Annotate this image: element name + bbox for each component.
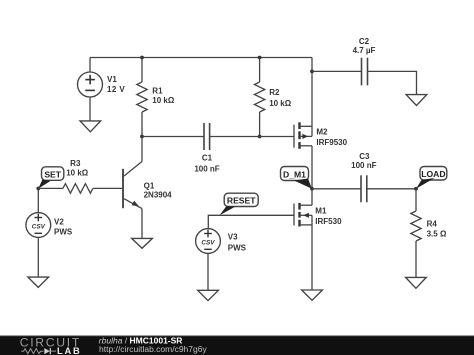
svg-text:C3: C3 xyxy=(359,152,370,161)
svg-text:10 kΩ: 10 kΩ xyxy=(269,99,292,108)
wire V1 bottom lead xyxy=(89,97,91,121)
wire C2 tap to C2 left xyxy=(312,70,362,72)
ground under V3 xyxy=(198,290,219,300)
resistor R2 xyxy=(254,58,264,137)
svg-text:R3: R3 xyxy=(70,159,81,168)
ground under R4 xyxy=(406,277,427,288)
node junction R1 top xyxy=(140,56,144,60)
resistor R3 xyxy=(63,184,122,194)
wire M2 drain to node D_M1 xyxy=(311,146,313,189)
label R1 10 kOhm xyxy=(152,87,175,106)
flag LOAD xyxy=(416,167,447,189)
ground under V1 xyxy=(80,121,101,132)
wire node A to C1 left xyxy=(142,136,204,138)
svg-text:C1: C1 xyxy=(202,153,213,162)
svg-text:R2: R2 xyxy=(269,88,280,97)
ground under V2 xyxy=(28,277,49,287)
node junction LOAD xyxy=(414,187,418,191)
label M2 IRF9530 xyxy=(316,128,347,147)
wire C2 right to ground drop xyxy=(368,71,417,94)
label C1 100 nF xyxy=(194,153,219,173)
label C3 100 nF xyxy=(351,152,376,170)
flag SET xyxy=(38,167,64,189)
label V3 PWS xyxy=(228,232,247,252)
svg-text:SET: SET xyxy=(44,169,61,179)
wire C3 right to node LOAD xyxy=(367,188,416,190)
ground under M1 xyxy=(302,290,323,300)
node junction D_M1 xyxy=(310,187,314,191)
transistor Q1 2N3904 (NPN) xyxy=(123,162,142,209)
capacitor C2 xyxy=(362,58,368,86)
node junction R1 bottom xyxy=(140,135,144,139)
svg-text:IRF9530: IRF9530 xyxy=(316,138,347,147)
wire V3 bottom xyxy=(207,253,209,290)
svg-text:M2: M2 xyxy=(316,128,328,137)
footer title text xyxy=(99,335,208,354)
svg-text:Q1: Q1 xyxy=(144,181,155,190)
resistor R4 xyxy=(411,189,421,278)
label R2 10 kOhm xyxy=(269,88,292,108)
wire V1 top lead xyxy=(89,58,91,73)
svg-text:RESET: RESET xyxy=(227,196,256,206)
svg-text:LOAD: LOAD xyxy=(421,169,445,179)
resistor R1 xyxy=(137,58,147,137)
svg-text:M1: M1 xyxy=(315,207,327,216)
svg-text:100 nF: 100 nF xyxy=(194,164,219,173)
svg-text:http://circuitlab.com/c9h7g6y: http://circuitlab.com/c9h7g6y xyxy=(99,344,207,354)
svg-text:IRF530: IRF530 xyxy=(315,217,342,226)
wire SET node to R3 xyxy=(38,187,63,189)
svg-text:CSV: CSV xyxy=(32,224,46,231)
svg-text:CSV: CSV xyxy=(201,240,215,247)
capacitor C3 xyxy=(361,175,367,202)
label R3 10 kOhm xyxy=(66,159,89,177)
node junction C2 tap xyxy=(310,70,314,74)
voltage source V3 (CSV) xyxy=(196,229,221,254)
flag D_M1 xyxy=(281,167,313,189)
svg-text:4.7 µF: 4.7 µF xyxy=(353,46,376,55)
wire C1 right to M2 gate xyxy=(210,136,294,138)
svg-text:V2: V2 xyxy=(54,217,64,226)
svg-text:10 kΩ: 10 kΩ xyxy=(66,168,89,177)
svg-text:V3: V3 xyxy=(228,232,238,241)
flag RESET xyxy=(220,193,259,215)
capacitor C1 xyxy=(204,123,210,150)
label M1 IRF530 xyxy=(315,207,342,227)
footer bar xyxy=(0,336,474,355)
label V1 12 V xyxy=(107,75,125,94)
svg-text:D_M1: D_M1 xyxy=(283,169,306,179)
svg-text:100 nF: 100 nF xyxy=(351,161,376,170)
wire SET node down to V2 xyxy=(37,188,39,212)
node junction R2 bottom xyxy=(258,135,262,139)
svg-text:10 kΩ: 10 kΩ xyxy=(152,96,175,105)
label V2 PWS xyxy=(54,217,73,236)
wire M1 source down xyxy=(311,225,313,290)
svg-text:R4: R4 xyxy=(427,219,438,228)
svg-text:12 V: 12 V xyxy=(107,85,125,94)
svg-text:2N3904: 2N3904 xyxy=(144,191,173,200)
svg-text:LAB: LAB xyxy=(57,346,82,355)
wire D_M1 to C3 left xyxy=(312,188,361,190)
wire Q1 collector up to node A xyxy=(141,137,143,162)
wire RESET corner to M1 gate xyxy=(208,215,294,228)
transistor M1 IRF530 (NMOS) xyxy=(294,203,312,227)
footer CircuitLab logo xyxy=(20,336,82,355)
wire M1 drain up to node D_M1 xyxy=(311,189,313,205)
transistor M2 IRF9530 (PMOS) xyxy=(294,122,312,149)
voltage source V2 (CSV) xyxy=(26,213,51,238)
wire M2 source to top rail xyxy=(311,58,313,127)
svg-text:PWS: PWS xyxy=(228,243,247,252)
wire top rail V1 to M2 source branch xyxy=(90,57,312,59)
label Q1 2N3904 xyxy=(144,181,173,199)
svg-text:C2: C2 xyxy=(359,37,370,46)
svg-text:V1: V1 xyxy=(107,75,117,84)
node junction R2 top xyxy=(258,56,262,60)
svg-text:R1: R1 xyxy=(152,87,163,96)
wire V2 bottom xyxy=(37,237,39,277)
label C2 4.7 uF xyxy=(353,37,376,55)
svg-text:PWS: PWS xyxy=(54,227,73,236)
ground under Q1 xyxy=(132,238,153,248)
wire Q1 emitter down xyxy=(141,209,143,239)
label R4 3.5 Ohm xyxy=(427,219,447,238)
node junction SET xyxy=(36,187,40,191)
voltage source V1 xyxy=(78,72,103,97)
ground right of C2 xyxy=(406,95,427,106)
svg-text:3.5 Ω: 3.5 Ω xyxy=(427,229,447,238)
